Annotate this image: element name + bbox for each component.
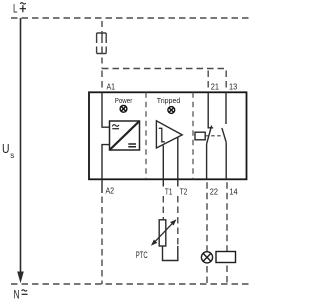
svg-text:A1: A1	[107, 82, 116, 91]
section separator 2	[192, 92, 194, 179]
wire: top L+ dashed rail	[11, 17, 250, 19]
wire T2 internal	[177, 137, 179, 179]
wire: dashed stub down to A1	[101, 69, 103, 93]
wire: dashed drop from L+ rail to fuse	[101, 18, 103, 33]
svg-text:13: 13	[229, 82, 238, 91]
node L+	[13, 1, 26, 15]
power supply unit (AC/DC converter)	[110, 121, 140, 150]
node Us label	[2, 141, 14, 160]
svg-text:U: U	[2, 141, 10, 156]
wire: dashed from fuse to branch node	[101, 54, 103, 69]
relay coil K1	[195, 132, 205, 140]
contact 13-14 bottom terminal	[225, 142, 227, 179]
LED Tripped indicator	[168, 107, 175, 114]
wire 22 below box dashed	[206, 179, 208, 252]
svg-text:22: 22	[210, 187, 219, 196]
svg-text:T2: T2	[180, 187, 188, 196]
contact 21-22 (NC) top terminal	[208, 92, 213, 128]
node N-	[14, 288, 28, 302]
step symbol inside triangle	[159, 128, 165, 142]
svg-text:PTC: PTC	[136, 250, 148, 260]
PTC variability arrow	[154, 222, 175, 244]
PTC thermistor	[159, 220, 166, 246]
trigger comparator triangle	[156, 121, 182, 148]
svg-text:Tripped: Tripped	[157, 96, 181, 105]
wire: Us solid vertical	[20, 18, 22, 272]
wire power supply to A2	[102, 145, 110, 180]
mechanical link dashed	[205, 135, 221, 137]
contact 21-22 blade	[207, 126, 212, 144]
wire: dashed stub down to 21	[207, 69, 209, 93]
fuse F1 (external, dashed)	[97, 33, 107, 54]
wire: dashed stub down to 13	[225, 69, 227, 93]
wire T1 internal	[162, 145, 164, 179]
contact 21-22 bottom terminal	[206, 144, 208, 179]
wire: dashed branch to 21/13	[102, 68, 226, 70]
svg-text:21: 21	[211, 82, 220, 91]
svg-text:Power: Power	[115, 96, 133, 105]
wire 22 lamp to N rail	[206, 263, 208, 284]
contact 13-14 (NO) top terminal	[225, 92, 227, 124]
LED Power indicator	[120, 105, 127, 112]
wire 14 coil to N rail	[226, 263, 228, 285]
svg-text:s: s	[10, 151, 14, 160]
wire T2 below box dashed	[177, 179, 179, 186]
svg-text:T1: T1	[165, 187, 173, 196]
wire 14 below box dashed	[226, 179, 228, 251]
svg-text:N: N	[14, 288, 20, 302]
wire T1 below box	[162, 179, 164, 186]
svg-text:A2: A2	[106, 186, 115, 195]
lamp H1	[201, 252, 212, 263]
svg-text:L: L	[13, 1, 18, 15]
arrowhead to N rail	[17, 272, 24, 284]
device box U1 outline	[89, 92, 247, 179]
section separator 1	[145, 92, 147, 179]
external relay coil K2	[216, 252, 236, 263]
wire: bottom N dashed rail	[11, 283, 250, 285]
contact 13-14 blade	[222, 128, 226, 142]
wire A2 below box	[101, 179, 103, 193]
wire PTC to T2 (solid U)	[163, 246, 178, 261]
svg-text:14: 14	[229, 187, 238, 196]
wire A1 into power supply	[102, 92, 110, 127]
